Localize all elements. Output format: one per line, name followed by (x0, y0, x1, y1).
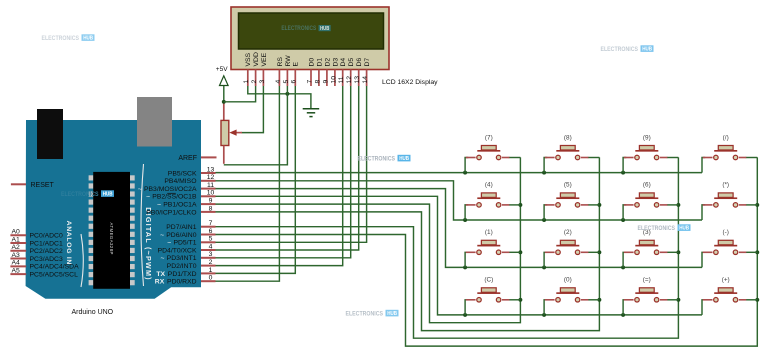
svg-text:RESET: RESET (31, 182, 55, 189)
svg-text:(-): (-) (723, 229, 729, 236)
svg-text:12: 12 (207, 174, 215, 181)
svg-text:HUB: HUB (679, 226, 689, 232)
svg-text:3: 3 (209, 251, 213, 258)
svg-text:PD2/INT0: PD2/INT0 (167, 263, 197, 270)
svg-text:5: 5 (283, 80, 290, 84)
svg-text:RS: RS (277, 57, 284, 67)
svg-text:12: 12 (346, 76, 353, 84)
svg-text:ELECTRONICS: ELECTRONICS (281, 26, 316, 32)
svg-text:(=): (=) (643, 277, 651, 284)
svg-text:D4: D4 (340, 58, 347, 67)
svg-text:PD3/INT1: PD3/INT1 (167, 255, 197, 262)
svg-text:(1): (1) (485, 229, 493, 236)
svg-text:PC5/ADC5/SCL: PC5/ADC5/SCL (30, 272, 79, 279)
svg-text:(8): (8) (564, 134, 572, 141)
svg-text:D1: D1 (316, 58, 323, 67)
svg-text:D7: D7 (364, 58, 371, 67)
svg-text:VSS: VSS (245, 52, 252, 66)
svg-text:4: 4 (209, 243, 213, 250)
svg-text:PD7/AIN1: PD7/AIN1 (166, 224, 196, 231)
svg-text:(0): (0) (564, 277, 572, 284)
svg-text:ELECTRONICS: ELECTRONICS (61, 191, 99, 198)
svg-text:TX: TX (156, 271, 165, 278)
svg-text:(7): (7) (485, 134, 493, 141)
svg-text:DIGITAL (~PWM): DIGITAL (~PWM) (144, 207, 153, 280)
svg-text:A4: A4 (12, 260, 21, 267)
svg-text:(6): (6) (643, 182, 651, 189)
svg-text:PB0/ICP1/CLKO: PB0/ICP1/CLKO (146, 209, 196, 216)
svg-text:A5: A5 (12, 268, 21, 275)
svg-text:2: 2 (251, 80, 258, 84)
svg-text:HUB: HUB (83, 36, 93, 42)
svg-text:D6: D6 (356, 58, 363, 67)
svg-text:(C): (C) (484, 277, 493, 284)
svg-text:PC3/ADC3: PC3/ADC3 (30, 256, 63, 263)
svg-text:PD6/AIN0: PD6/AIN0 (166, 232, 196, 239)
svg-text:ELECTRONICS: ELECTRONICS (346, 310, 384, 317)
svg-text:ELECTRONICS: ELECTRONICS (638, 225, 676, 232)
svg-text:E: E (293, 62, 300, 67)
svg-text:8: 8 (314, 80, 321, 84)
svg-text:~: ~ (160, 232, 164, 239)
svg-text:1: 1 (209, 267, 213, 274)
svg-text:D3: D3 (332, 58, 339, 67)
svg-text:A1: A1 (12, 236, 21, 243)
svg-text:0: 0 (209, 275, 213, 282)
svg-text:~: ~ (146, 194, 150, 201)
svg-text:PC4/ADC4/SDA: PC4/ADC4/SDA (30, 264, 80, 271)
svg-text:8: 8 (209, 205, 213, 212)
svg-text:7: 7 (209, 220, 213, 227)
svg-text:3: 3 (259, 80, 266, 84)
svg-text:13: 13 (207, 166, 215, 173)
svg-text:VEE: VEE (261, 52, 268, 66)
svg-text:PB1/OC1A: PB1/OC1A (163, 202, 197, 209)
svg-text:(+): (+) (722, 277, 730, 284)
svg-text:~: ~ (160, 255, 164, 262)
svg-text:6: 6 (209, 228, 213, 235)
svg-text:RW: RW (285, 55, 292, 67)
svg-text:11: 11 (207, 182, 214, 189)
svg-text:HUB: HUB (103, 192, 113, 198)
svg-text:RX: RX (155, 279, 165, 286)
svg-text:PC2/ADC2: PC2/ADC2 (30, 248, 63, 255)
svg-text:PD0/RXD: PD0/RXD (167, 279, 197, 286)
svg-text:HUB: HUB (399, 156, 409, 162)
svg-text:PB4/MISO: PB4/MISO (164, 178, 196, 185)
svg-text:ELECTRONICS: ELECTRONICS (358, 155, 396, 162)
svg-text:LCD 16X2 Display: LCD 16X2 Display (382, 79, 438, 86)
svg-text:A0: A0 (12, 229, 21, 236)
svg-text:~: ~ (157, 202, 161, 209)
svg-text:PB3/MOSI/OC2A: PB3/MOSI/OC2A (144, 186, 197, 193)
svg-text:(2): (2) (564, 229, 572, 236)
svg-text:A3: A3 (12, 252, 21, 259)
svg-text:(9): (9) (643, 134, 651, 141)
svg-text:D2: D2 (324, 58, 331, 67)
svg-text:11: 11 (338, 76, 345, 83)
svg-text:(5): (5) (564, 182, 572, 189)
svg-text:ELECTRONICS: ELECTRONICS (42, 35, 80, 42)
svg-text:ELECTRONICS: ELECTRONICS (601, 46, 639, 53)
svg-text:PD5/T1: PD5/T1 (173, 240, 196, 247)
svg-text:14: 14 (362, 76, 369, 84)
svg-text:Arduino UNO: Arduino UNO (72, 309, 114, 316)
svg-text:D5: D5 (348, 58, 355, 67)
svg-text:2: 2 (209, 259, 213, 266)
svg-text:4: 4 (275, 80, 282, 84)
svg-text:+5V: +5V (216, 66, 228, 73)
svg-text:10: 10 (330, 76, 337, 84)
svg-text:6: 6 (291, 80, 298, 84)
svg-text:9: 9 (209, 198, 213, 205)
svg-text:HUB: HUB (642, 47, 652, 53)
svg-text:10: 10 (207, 190, 215, 197)
svg-text:D0: D0 (308, 58, 315, 67)
svg-text:PD4/T0/XCK: PD4/T0/XCK (158, 247, 197, 254)
svg-text:VDD: VDD (253, 52, 260, 66)
svg-text:PB2/SS/OC1B: PB2/SS/OC1B (152, 194, 197, 201)
svg-text:HUB: HUB (320, 26, 329, 32)
svg-text:A2: A2 (12, 244, 21, 251)
svg-text:ATMEGA328P: ATMEGA328P (109, 223, 114, 255)
svg-text:(4): (4) (485, 182, 493, 189)
svg-text:(/): (/) (723, 134, 729, 141)
svg-text:7: 7 (306, 80, 313, 84)
svg-text:13: 13 (354, 76, 361, 84)
svg-text:ANALOG IN: ANALOG IN (65, 221, 72, 265)
svg-text:PC0/ADC0: PC0/ADC0 (30, 233, 63, 240)
svg-text:PB5/SCK: PB5/SCK (168, 170, 197, 177)
svg-text:AREF: AREF (178, 155, 197, 162)
svg-text:PC1/ADC1: PC1/ADC1 (30, 240, 63, 247)
svg-text:PD1/TXD: PD1/TXD (168, 271, 197, 278)
svg-text:9: 9 (322, 80, 329, 84)
svg-text:1: 1 (243, 80, 250, 84)
svg-text:(*): (*) (722, 182, 729, 189)
svg-text:~: ~ (138, 186, 142, 193)
svg-text:~: ~ (167, 240, 171, 247)
svg-text:5: 5 (209, 236, 213, 243)
svg-text:HUB: HUB (387, 311, 397, 317)
